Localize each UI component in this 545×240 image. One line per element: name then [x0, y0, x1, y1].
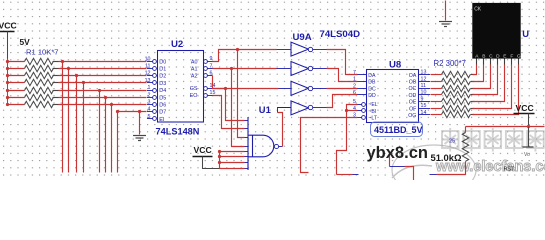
junction row 6 drop: [104, 96, 107, 99]
wire ~BI to riser: [347, 110, 358, 112]
pin U8 ~EL (5): [358, 104, 363, 106]
pin U2 D3 (13): [147, 82, 152, 84]
wire row 2 to U2: [59, 68, 147, 70]
wire row 5 vertical drop: [99, 91, 101, 173]
wire R2-5 to display pin E: [473, 65, 505, 102]
svg-text:A0: A0: [191, 59, 198, 65]
resistor R1-2 lead: [53, 68, 59, 70]
wire row 3 vertical drop: [76, 76, 78, 173]
wire to resistor R1-4: [8, 82, 25, 84]
resistor R1-7 lead: [53, 104, 59, 106]
wire to resistor R1-5: [8, 90, 25, 92]
svg-text:5V: 5V: [20, 37, 31, 47]
wire VCC mid stem: [203, 157, 220, 169]
svg-text:OD: OD: [409, 93, 417, 99]
junction bus row 1: [6, 60, 9, 63]
svg-text:OB: OB: [409, 80, 417, 86]
wire A1 branch to U1: [232, 69, 245, 147]
pin U2 A1 (7): [204, 67, 208, 71]
svg-text:14: 14: [421, 110, 427, 116]
svg-text:DB: DB: [368, 80, 376, 86]
junction row 5 drop: [98, 89, 101, 92]
pin U2 A2 (6): [204, 74, 208, 78]
resistor R2-7: [431, 114, 442, 116]
svg-text:VCC: VCC: [0, 21, 17, 31]
pin display E: [504, 59, 506, 65]
resistor R5 51.0k: [462, 133, 468, 162]
wire R2-6 to display pin F: [473, 65, 512, 109]
pin display A: [476, 59, 478, 65]
svg-text:U9A: U9A: [293, 32, 312, 43]
wire U1 output to inverter U9A-4: [279, 146, 283, 148]
pin U2 D7 (4): [147, 111, 152, 113]
junction row 7 drop: [110, 103, 113, 106]
wire A0 branch to U1: [238, 50, 245, 138]
svg-text:D7: D7: [159, 110, 166, 116]
svg-text:C: C: [489, 53, 493, 59]
svg-text:D4: D4: [159, 88, 166, 94]
wire A0 to inverter U9A-1: [213, 50, 277, 62]
svg-text:1: 1: [353, 77, 356, 83]
svg-text:OF: OF: [409, 106, 416, 112]
gate U1 8-input NAND body: [248, 117, 274, 170]
pin display C: [490, 59, 492, 65]
wire row 5 to U2: [59, 90, 147, 92]
svg-text:2: 2: [353, 83, 356, 89]
svg-text:2: 2: [148, 92, 151, 98]
pin U8 OB (12): [419, 81, 431, 83]
wire U8 ~EL riser: [337, 105, 358, 175]
junction ~BI riser: [345, 109, 348, 112]
pin U8 OD (10): [419, 94, 431, 96]
pin U8 ~LT (3): [358, 117, 363, 119]
pin display F: [511, 59, 513, 65]
wire R5 bottom: [437, 162, 466, 175]
wire key branch tail: [405, 167, 414, 181]
wire VCC riser to U1 inputs: [219, 152, 221, 169]
svg-text:CK: CK: [474, 6, 482, 12]
junction VCC riser: [218, 150, 221, 153]
svg-text:EO: EO: [190, 93, 198, 99]
svg-text:74LS04D: 74LS04D: [320, 29, 361, 40]
wire row 6 vertical drop: [105, 98, 107, 173]
pin U2 EI (5): [147, 118, 152, 120]
pin U2 D0 (10): [147, 61, 152, 63]
svg-text:D3: D3: [159, 81, 166, 87]
wire to resistor R1-6: [8, 97, 25, 99]
svg-text:11: 11: [421, 83, 427, 89]
wire to resistor R1-7: [8, 104, 25, 106]
svg-text:D: D: [496, 53, 500, 59]
wire row 4 vertical drop: [83, 83, 85, 173]
wire key branch blue segment: [390, 166, 405, 168]
wire U1 input tie-high: [220, 151, 245, 153]
wire U1 input tie-high: [220, 156, 245, 158]
display U5 seven-segment body: [472, 3, 520, 59]
svg-text:51.0kΩ: 51.0kΩ: [431, 152, 462, 163]
pin U2 GS (14): [204, 87, 208, 91]
resistor R1-2: [25, 65, 54, 71]
svg-text:R2 300*7: R2 300*7: [434, 59, 467, 68]
gate U9A inverter 3: [291, 81, 309, 95]
wire U1 input tie row 8: [220, 168, 245, 170]
svg-text:10: 10: [145, 56, 151, 62]
wire row 7 vertical drop: [111, 105, 113, 173]
svg-text:9: 9: [210, 56, 213, 62]
junction bus row 6: [6, 96, 9, 99]
svg-text:VCC: VCC: [516, 103, 534, 113]
svg-text:6: 6: [353, 90, 356, 96]
resistor R1-4: [25, 79, 54, 85]
ground top: [439, 22, 452, 27]
svg-text:GS: GS: [190, 86, 198, 92]
resistor R1-7: [25, 101, 54, 107]
wire ground riser: [139, 112, 141, 135]
pin U8 ~BI (4): [358, 110, 363, 112]
pin U2 D2 (12): [147, 75, 152, 77]
wire R2-1 to display pin A: [473, 65, 477, 75]
resistor R1-3: [25, 72, 54, 78]
pin U8 DC (2): [358, 88, 367, 90]
junction row 2 drop: [67, 67, 70, 70]
wire R2-3 to display pin C: [473, 65, 491, 89]
svg-text:ybx8.cn: ybx8.cn: [367, 144, 428, 162]
wire VCC stem: [7, 32, 9, 59]
svg-text:OC: OC: [409, 86, 417, 92]
resistor R2-5: [431, 101, 442, 103]
wire to resistor R1-1: [8, 61, 25, 63]
svg-text:13: 13: [145, 78, 151, 84]
svg-text:R1 10K*7: R1 10K*7: [26, 48, 59, 57]
wire VCC right stem: [528, 114, 530, 127]
resistor R1-5 lead: [53, 90, 59, 92]
junction GS: [224, 87, 227, 90]
wire VCC rail right: [466, 126, 545, 128]
junction D7 ground riser: [138, 110, 141, 113]
connector Vo bar: [523, 146, 534, 148]
wire row 6 to U2: [59, 97, 147, 99]
svg-text:U1: U1: [259, 104, 271, 115]
pin display D: [497, 59, 499, 65]
wire R2-7 to display pin G: [473, 65, 519, 115]
pin U2 EO (15): [204, 94, 208, 98]
resistor R1-1: [25, 58, 54, 64]
svg-text:10: 10: [421, 90, 427, 96]
svg-text:7: 7: [353, 70, 356, 76]
svg-text:12: 12: [421, 76, 427, 82]
svg-text:U2: U2: [171, 39, 183, 50]
pin U8 DA (7): [358, 74, 367, 76]
svg-text:11: 11: [145, 64, 151, 70]
pin U8 OG (14): [419, 114, 431, 116]
wire D7 vertical drop: [117, 112, 119, 173]
junction bus row 4: [6, 81, 9, 84]
wire EO to U1: [213, 96, 245, 129]
svg-text:4511BD_5V: 4511BD_5V: [374, 125, 423, 135]
svg-text:DC: DC: [368, 86, 376, 92]
svg-text:13: 13: [421, 70, 427, 76]
svg-text:OE: OE: [409, 100, 417, 106]
junction bus row 5: [6, 89, 9, 92]
resistor R2-3: [431, 88, 442, 90]
wire row 7 to U2: [59, 104, 147, 106]
svg-text:74LS148N: 74LS148N: [156, 126, 200, 136]
svg-text:RST: RST: [504, 166, 515, 172]
svg-text:~LT: ~LT: [368, 116, 378, 122]
svg-text:~EL: ~EL: [368, 102, 377, 108]
pin U8 OE (9): [419, 101, 431, 103]
junction A0 branch: [236, 48, 239, 51]
junction row 3 drop: [75, 74, 78, 77]
wire top ground feed: [445, 1, 447, 21]
svg-text:E: E: [503, 53, 506, 59]
pin U2 D4 (1): [147, 90, 152, 92]
op IC U2 74LS148N body: [158, 51, 204, 123]
wire R1 supply bus: [7, 59, 9, 105]
svg-text:~BI: ~BI: [368, 109, 376, 115]
svg-text:15: 15: [421, 103, 427, 109]
svg-text:U: U: [522, 28, 529, 39]
junction row 1 drop: [61, 60, 64, 63]
wire D7 row: [118, 111, 147, 113]
wire U8 ~LT feed: [301, 118, 358, 173]
wire R2-2 to display pin B: [473, 65, 484, 82]
wire U9A-1 out to U8 DA: [313, 49, 327, 51]
pin U2 D5 (2): [147, 97, 152, 99]
resistor R1-3 lead: [53, 75, 59, 77]
svg-text:A1: A1: [191, 67, 198, 73]
wire to resistor R1-3: [8, 75, 25, 77]
pin U8 OC (11): [419, 88, 431, 90]
junction VCC riser: [218, 161, 221, 164]
resistor R1-6: [25, 94, 54, 100]
junction bus row 3: [6, 74, 9, 77]
wire row 4 to U2: [59, 82, 147, 84]
IC U8 4511BD body: [367, 70, 419, 123]
svg-text:9: 9: [421, 96, 424, 102]
pin U8 DD (6): [358, 94, 367, 96]
gate U9A inverter 4: [291, 101, 309, 115]
svg-text:OA: OA: [409, 73, 417, 79]
resistor R2-1: [431, 74, 442, 76]
svg-text:U8: U8: [389, 59, 402, 70]
pin display G: [518, 59, 520, 65]
svg-text:Vo: Vo: [524, 152, 530, 158]
resistor R1-5: [25, 87, 54, 93]
resistor R1-1 lead: [53, 61, 59, 63]
wire A1 to inverter U9A-2: [213, 68, 277, 70]
svg-text:12: 12: [145, 71, 151, 77]
svg-text:DA: DA: [368, 73, 376, 79]
svg-text:1: 1: [148, 85, 151, 91]
junction bus row 2: [6, 67, 9, 70]
wire row 1 to U2: [59, 61, 147, 63]
pin U8 OA (13): [419, 74, 431, 76]
svg-text:OG: OG: [408, 113, 416, 119]
svg-text:7: 7: [210, 63, 213, 69]
wire R2-4 to display pin D: [473, 65, 498, 95]
pin U2 D1 (11): [147, 68, 152, 70]
svg-text:DD: DD: [368, 93, 376, 99]
bubble U1 output: [274, 144, 278, 148]
ground under U2: [133, 136, 146, 141]
wire Vo stub: [528, 127, 530, 147]
wire to R5: [465, 127, 467, 133]
svg-text:EI: EI: [159, 117, 164, 123]
wire U9A-3 out to U8 DC: [313, 88, 327, 90]
svg-text:A2: A2: [191, 74, 198, 80]
svg-text:G: G: [517, 53, 521, 59]
wire to resistor R1-2: [8, 68, 25, 70]
resistor R2-6: [431, 108, 442, 110]
junction row 4 drop: [82, 81, 85, 84]
wire U1 input tie-high: [220, 162, 245, 164]
resistor R2-2: [431, 81, 442, 83]
wire row 1 vertical drop: [62, 62, 64, 173]
svg-text:F: F: [510, 53, 513, 59]
resistor R1-6 lead: [53, 97, 59, 99]
junction A1 branch: [230, 67, 233, 70]
watermark white blob: [392, 145, 476, 195]
svg-text:D5: D5: [159, 95, 166, 101]
svg-text:D2: D2: [159, 74, 166, 80]
gate U9A inverter 2: [291, 62, 309, 76]
wire A2 to inverter U9A-3: [213, 76, 279, 89]
svg-text:5: 5: [148, 114, 151, 120]
resistor R2-4: [431, 94, 442, 96]
wire row 3 to U2: [59, 75, 147, 77]
watermark chinese characters: [442, 128, 544, 152]
pin U8 OF (15): [419, 108, 431, 110]
resistor R1-4 lead: [53, 82, 59, 84]
svg-text:D0: D0: [159, 59, 166, 65]
junction D7 drop: [116, 110, 119, 113]
svg-text:3: 3: [148, 100, 151, 106]
wire bottom stub: [337, 174, 353, 176]
junction VCC right: [527, 125, 530, 128]
junction bus row 7: [6, 103, 9, 106]
svg-text:D1: D1: [159, 67, 166, 73]
label 4511BD_5V highlight box: [371, 122, 423, 137]
junction VCC riser: [218, 155, 221, 158]
svg-text:25: 25: [449, 139, 455, 145]
wire key branch under watermark: [389, 152, 391, 167]
pin display B: [483, 59, 485, 65]
pin U2 A0 (9): [204, 60, 208, 64]
svg-text:B: B: [482, 53, 485, 59]
svg-text:VCC: VCC: [194, 145, 212, 155]
wire row 2 vertical drop: [68, 69, 70, 173]
wire U9A-4 out to U8 DD: [313, 107, 327, 109]
svg-text:D6: D6: [159, 103, 166, 109]
gate U9A inverter 1: [291, 42, 309, 56]
svg-text:4: 4: [148, 107, 151, 113]
pin U2 D6 (3): [147, 104, 152, 106]
wire U9A-2 out to U8 DB: [313, 68, 327, 70]
wire GS to U1: [213, 89, 245, 121]
pin U8 DB (1): [358, 81, 367, 83]
